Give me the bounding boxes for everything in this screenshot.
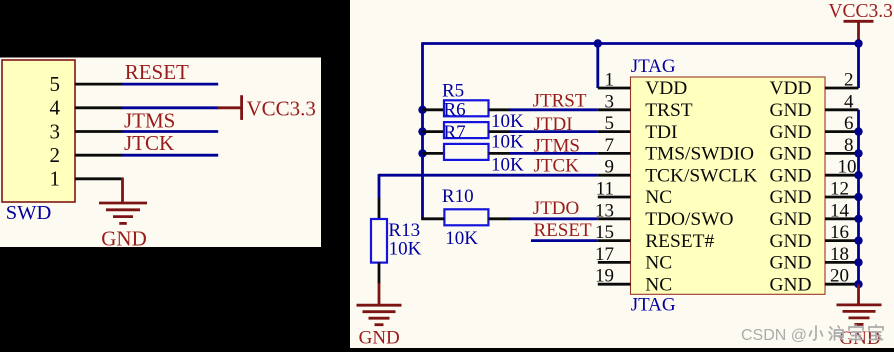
wire: R7 left pin — [423, 152, 445, 155]
svg-text:6: 6 — [844, 113, 854, 134]
svg-text:TDI: TDI — [645, 122, 677, 143]
svg-text:3: 3 — [605, 91, 615, 112]
svg-text:16: 16 — [830, 222, 849, 243]
junction: GND bus / pin 8 — [854, 149, 862, 157]
svg-text:NC: NC — [645, 253, 672, 274]
wire RESET net (right) — [531, 239, 598, 242]
svg-text:4: 4 — [50, 96, 61, 120]
wire: SWD pin1 drop to ground — [121, 178, 124, 204]
svg-text:GND: GND — [769, 165, 811, 186]
wire: R10 right pin — [488, 217, 510, 220]
svg-text:9: 9 — [605, 157, 615, 178]
wire: top VCC rail horizontal — [423, 42, 859, 45]
wire: R7 right pin — [489, 152, 511, 155]
wire: R6 right pin — [489, 130, 511, 133]
svg-text:10K: 10K — [491, 111, 524, 132]
svg-text:JTDI: JTDI — [534, 114, 573, 135]
JTAG pin 20 stub — [825, 283, 859, 286]
svg-text:8: 8 — [844, 135, 854, 156]
svg-text:RESET#: RESET# — [645, 231, 714, 252]
svg-text:11: 11 — [596, 179, 614, 200]
svg-text:10K: 10K — [491, 155, 524, 176]
junction: GND bus / pin 14 — [854, 215, 862, 223]
JTAG pin 6 stub — [825, 130, 859, 133]
svg-text:JTCK: JTCK — [534, 156, 580, 177]
wire: SWD pin 4 (VCC3.3) black stub — [75, 106, 123, 109]
svg-text:10K: 10K — [389, 238, 422, 259]
svg-text:TCK/SWCLK: TCK/SWCLK — [645, 165, 757, 186]
svg-text:GND: GND — [769, 122, 811, 143]
JTAG pin 18 stub — [825, 261, 859, 264]
watermark hanzi bao2 — [869, 325, 883, 340]
svg-text:7: 7 — [605, 135, 615, 156]
svg-text:10K: 10K — [491, 132, 524, 153]
svg-text:3: 3 — [50, 119, 61, 143]
JTAG pin 9 stub — [598, 174, 631, 177]
wire JTRST net — [510, 108, 598, 111]
junction: GND bus / pin 20 — [854, 280, 862, 288]
svg-text:4: 4 — [844, 91, 854, 112]
wire: R10 left pin — [421, 217, 444, 220]
JTAG pin 19 stub — [598, 283, 631, 286]
svg-text:JTMS: JTMS — [534, 135, 580, 156]
wire: GND bus to ground lead — [857, 284, 860, 305]
svg-text:VCC3.3: VCC3.3 — [247, 97, 316, 121]
wire to VCC3.3 (left) — [122, 106, 219, 109]
svg-text:VCC3.3: VCC3.3 — [828, 1, 892, 22]
wire: SWD pin 3 (JTMS) black stub — [75, 130, 123, 133]
svg-text:R10: R10 — [442, 186, 474, 207]
wire: R5 right pin — [489, 108, 511, 111]
wire: R6 left pin — [423, 130, 445, 133]
svg-text:2: 2 — [844, 70, 854, 91]
JTAG pin 11 stub — [598, 196, 631, 199]
wire: right GND bus vertical — [857, 110, 860, 284]
JTAG pin 4 stub — [825, 108, 859, 111]
wire: R5 left pin — [423, 108, 445, 111]
svg-text:GND: GND — [769, 100, 811, 121]
svg-text:20: 20 — [830, 266, 849, 287]
wire JTDI net — [510, 130, 598, 133]
svg-text:RESET: RESET — [125, 60, 189, 84]
svg-text:GND: GND — [769, 144, 811, 165]
JTAG pin 3 stub — [598, 108, 631, 111]
JTAG pin 5 stub — [598, 130, 631, 133]
connector SWD body — [2, 60, 75, 202]
JTAG pin 10 stub — [825, 174, 859, 177]
svg-text:R7: R7 — [444, 122, 466, 143]
junction: GND bus / pin 10 — [854, 171, 862, 179]
resistor R13 body — [371, 219, 387, 263]
svg-text:GND: GND — [101, 227, 147, 251]
JTAG pin 15 stub — [598, 239, 631, 242]
resistor R7 body — [444, 144, 489, 160]
svg-text:JTAG: JTAG — [631, 295, 676, 316]
watermark hanzi lang — [829, 326, 843, 340]
svg-text:GND: GND — [769, 274, 811, 295]
svg-text:JTRST: JTRST — [533, 91, 587, 112]
wire RESET net (left) — [122, 83, 219, 86]
svg-text:12: 12 — [830, 179, 849, 200]
wire JTDO net — [510, 217, 598, 220]
wire: pin1 feed vertical — [596, 44, 599, 89]
svg-text:10: 10 — [838, 157, 857, 178]
wire: R13 top pin — [378, 198, 381, 219]
watermark hanzi bao — [849, 325, 863, 340]
wire: pin2 feed vertical — [857, 44, 860, 89]
JTAG pin 14 stub — [825, 217, 859, 220]
svg-text:1: 1 — [50, 167, 61, 191]
JTAG pin 7 stub — [598, 152, 631, 155]
svg-text:GND: GND — [359, 328, 400, 349]
ground symbol (bottom right) — [837, 303, 882, 306]
svg-text:1: 1 — [605, 70, 615, 91]
svg-text:17: 17 — [595, 244, 614, 265]
svg-text:JTCK: JTCK — [124, 131, 174, 155]
junction: GND bus / pin 6 — [854, 127, 862, 135]
power symbol VCC3.3 (left) : bar — [240, 95, 243, 120]
svg-text:GND: GND — [769, 209, 811, 230]
svg-text:R6: R6 — [444, 99, 466, 120]
power symbol VCC3.3 (top right) : lead — [857, 21, 860, 43]
resistor R5 body — [444, 100, 489, 116]
svg-text:NC: NC — [645, 187, 672, 208]
svg-text:RESET: RESET — [534, 220, 592, 241]
wire JTMS net — [510, 152, 598, 155]
svg-text:GND: GND — [769, 187, 811, 208]
JTAG pin 2 stub — [825, 87, 859, 90]
svg-text:TMS/SWDIO: TMS/SWDIO — [645, 144, 754, 165]
svg-text:VDD: VDD — [645, 78, 687, 99]
svg-text:5: 5 — [605, 113, 615, 134]
wire: SWD pin 1 (GND) black stub — [75, 177, 123, 180]
left schematic panel (SWD) — [0, 58, 321, 248]
junction: GND bus / pin 16 — [854, 236, 862, 244]
resistor R10 body — [444, 209, 488, 225]
svg-text:19: 19 — [595, 266, 614, 287]
wire JTMS net (left) — [122, 130, 219, 133]
svg-text:GND: GND — [769, 253, 811, 274]
JTAG pin 16 stub — [825, 239, 859, 242]
ground symbol (left panel) — [99, 202, 147, 205]
resistor R6 body — [444, 122, 489, 138]
junction: VCC rail / R6 — [418, 127, 426, 135]
svg-text:15: 15 — [595, 222, 614, 243]
svg-text:JTAG: JTAG — [631, 56, 676, 77]
right schematic panel (JTAG) — [350, 0, 894, 348]
wire: JTCK drop to R13 — [378, 174, 381, 198]
svg-text:VDD: VDD — [769, 78, 811, 99]
junction: GND bus / pin 18 — [854, 258, 862, 266]
svg-text:JTDO: JTDO — [533, 198, 579, 219]
svg-text:R5: R5 — [442, 80, 464, 101]
power symbol VCC3.3 (left) : lead — [217, 106, 241, 109]
svg-text:JTMS: JTMS — [124, 108, 175, 132]
svg-text:2: 2 — [50, 143, 61, 167]
wire: left VCC rail vertical — [421, 42, 424, 219]
junction: VCC rail / R5 — [418, 106, 426, 114]
svg-text:10K: 10K — [445, 228, 478, 249]
svg-text:NC: NC — [645, 274, 672, 295]
wire JTCK net (left) — [122, 154, 219, 157]
JTAG pin 1 stub — [598, 87, 631, 90]
power symbol VCC3.3 (top right) : bar — [844, 20, 874, 23]
svg-text:TRST: TRST — [645, 100, 693, 121]
JTAG pin 8 stub — [825, 152, 859, 155]
JTAG pin 13 stub — [598, 217, 631, 220]
wire: SWD pin 2 (JTCK) black stub — [75, 154, 123, 157]
svg-text:18: 18 — [830, 244, 849, 265]
JTAG pin 17 stub — [598, 261, 631, 264]
ground symbol (below R13) — [357, 304, 402, 307]
junction: VCC rail / VCC3.3 symbol — [854, 39, 862, 47]
junction: VCC rail / R7 — [418, 149, 426, 157]
svg-text:SWD: SWD — [6, 202, 52, 224]
junction: VCC rail / pin1 feed — [594, 39, 602, 47]
JTAG pin 12 stub — [825, 196, 859, 199]
wire JTCK net horizontal — [379, 174, 598, 177]
wire: SWD pin 5 (RESET) black stub — [75, 83, 123, 86]
svg-text:CSDN @: CSDN @ — [741, 327, 807, 344]
watermark hanzi xiao — [810, 326, 823, 340]
svg-text:5: 5 — [50, 72, 61, 96]
connector JTAG body — [631, 77, 826, 294]
svg-text:13: 13 — [595, 200, 614, 221]
junction: GND bus / pin 12 — [854, 193, 862, 201]
svg-text:GND: GND — [769, 231, 811, 252]
wire: R13 bottom pin — [378, 263, 381, 284]
wire: R13 to ground lead — [378, 283, 381, 305]
svg-text:TDO/SWO: TDO/SWO — [645, 209, 733, 230]
svg-text:14: 14 — [830, 200, 850, 221]
